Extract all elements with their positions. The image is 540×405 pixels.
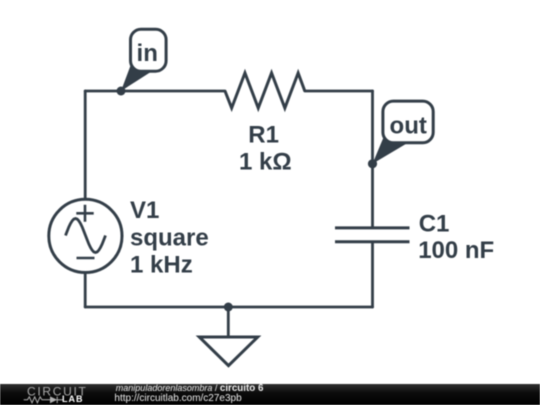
resistor R1 (225, 73, 305, 108)
node out junction dot (368, 159, 377, 168)
svg-text:square: square (130, 225, 209, 252)
svg-text:100 nF: 100 nF (418, 237, 494, 264)
V1 sine waveform (66, 219, 106, 253)
svg-text:out: out (390, 112, 427, 139)
svg-text:in: in (137, 40, 158, 67)
svg-text:1 kHz: 1 kHz (130, 251, 193, 278)
svg-text:1 kΩ: 1 kΩ (239, 149, 292, 176)
logo squiggle wire (24, 397, 63, 404)
in flag pointer (121, 63, 152, 91)
out flag pointer (373, 135, 408, 164)
wire right vertical upper (node out) (371, 91, 374, 227)
svg-text:C1: C1 (419, 210, 450, 237)
out flag box (383, 101, 433, 143)
node flag in (121, 29, 166, 91)
node flag out (373, 101, 434, 164)
svg-text:http://circuitlab.com/c27e3pb: http://circuitlab.com/c27e3pb (114, 393, 242, 404)
ground junction dot (224, 303, 233, 312)
V1 plus sign (76, 205, 93, 222)
wire left vertical upper (84, 91, 87, 200)
V1 minus sign (77, 257, 95, 260)
voltage source V1 body (49, 199, 122, 272)
node in junction dot (117, 87, 126, 96)
C1 bottom plate (335, 240, 410, 243)
C1 top plate (335, 226, 410, 229)
ground stub wire (227, 307, 230, 337)
svg-text:R1: R1 (248, 122, 279, 149)
footer bar (0, 384, 540, 405)
wire top-left horizontal (node in) (85, 90, 225, 93)
svg-text:V1: V1 (130, 197, 159, 224)
wire bottom horizontal (85, 306, 372, 309)
ground (199, 307, 257, 366)
wire top-right horizontal (305, 90, 373, 93)
logo diode (50, 396, 57, 403)
capacitor C1 (335, 228, 410, 242)
ground triangle (199, 337, 257, 366)
wire right vertical lower (371, 243, 374, 307)
in flag box (131, 29, 167, 71)
wire left vertical lower (84, 273, 87, 308)
svg-text:LAB: LAB (62, 394, 84, 404)
